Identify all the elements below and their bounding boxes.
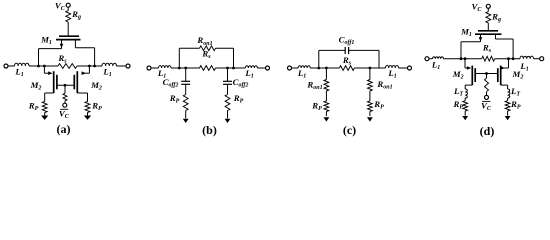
wire: LT to Rp (d right) bbox=[507, 98, 509, 101]
resistor gate bias (d) bbox=[485, 78, 489, 92]
wire: (c) output lead bbox=[399, 67, 408, 69]
inductor L1 (c left) bbox=[298, 66, 310, 68]
capacitor Coff1 (c) bbox=[345, 47, 348, 54]
label Rp (c left) bbox=[311, 101, 322, 113]
label L1 (c left) bbox=[297, 68, 306, 80]
label M1 (d) bbox=[460, 27, 472, 39]
wire: (d) main line left bbox=[444, 58, 482, 60]
resistor Rp (d left) bbox=[463, 101, 468, 111]
port: Vc terminal (d) bbox=[486, 4, 490, 8]
label Ron1 (c left) bbox=[306, 80, 322, 92]
label Ron1 (c right) bbox=[376, 79, 392, 91]
port: (c) output terminal bbox=[408, 66, 412, 70]
label M2 (a right) bbox=[90, 80, 102, 92]
label L1 (d left) bbox=[431, 59, 440, 71]
transistor M1 (d) bbox=[461, 31, 513, 59]
wire: gate to resistor (a) bbox=[64, 85, 66, 93]
label L1 (a right) bbox=[102, 67, 111, 79]
wire: Rp to ground (c right) bbox=[369, 112, 371, 117]
label Rp (d left) bbox=[452, 99, 463, 111]
label Rp (d right) bbox=[510, 99, 521, 111]
label M2 (d right) bbox=[512, 69, 524, 81]
resistor Rp (a left) bbox=[42, 102, 47, 113]
svg-text:(d): (d) bbox=[480, 124, 495, 138]
resistor Rp (c right) bbox=[368, 101, 373, 112]
label M1 (a) bbox=[40, 35, 52, 47]
wire: (c) input lead bbox=[292, 67, 299, 69]
wire: M2 gate line (d) bbox=[475, 73, 498, 75]
transistor M2 (a right) bbox=[74, 66, 89, 102]
inductor L1 (b left) bbox=[159, 66, 172, 68]
label L1 (b right) bbox=[244, 68, 253, 80]
node A1 (d) bbox=[460, 57, 463, 60]
node loop-left (c) bbox=[317, 67, 320, 70]
capacitor Coff2 (b left) bbox=[181, 81, 190, 84]
wire: (d) main line right bbox=[495, 58, 520, 60]
wire: (a) main line right bbox=[77, 65, 102, 67]
port: (b) input terminal bbox=[147, 66, 151, 70]
transistor M2 (a left) bbox=[44, 66, 57, 102]
wire: gate to resistor (d) bbox=[486, 74, 488, 79]
node B1 (a) bbox=[93, 65, 96, 68]
transistor M2 (d left) bbox=[465, 59, 475, 89]
ground (b right) bbox=[225, 119, 231, 123]
node gate junction (d) bbox=[485, 72, 488, 75]
svg-text:(a): (a) bbox=[57, 122, 71, 136]
resistor Rp (c left) bbox=[324, 101, 329, 112]
node B2 (d) bbox=[507, 57, 510, 60]
label Coff2 (b left) bbox=[163, 77, 179, 89]
label Rs (b) bbox=[201, 49, 211, 61]
label Rs (c) bbox=[342, 55, 352, 67]
resistor Ron1 (c right) bbox=[368, 80, 373, 92]
label Rp (c right) bbox=[373, 99, 384, 111]
label L1 (a left) bbox=[14, 67, 23, 79]
wire: (b) input lead bbox=[151, 67, 159, 69]
resistor Rs (b) bbox=[200, 66, 216, 71]
inductor L1 (a right) bbox=[102, 63, 117, 66]
wire: (c) left node wire bbox=[310, 67, 339, 69]
port: (d) input terminal bbox=[425, 57, 429, 61]
transistor M1 (a) bbox=[39, 36, 95, 66]
port: Vcbar terminal (a) bbox=[63, 103, 67, 107]
port: Vcbar terminal (d) bbox=[485, 95, 489, 99]
wire: Ron to Rp (c right) bbox=[369, 91, 371, 101]
ground (b left) bbox=[183, 119, 189, 123]
wire: (b) left node wire bbox=[171, 67, 200, 69]
label Rs (d) bbox=[482, 43, 492, 55]
resistor Rs (a) bbox=[58, 64, 77, 69]
wire: Rg to M1 gate (d) bbox=[487, 23, 489, 30]
wire: Rp to ground (d left) bbox=[464, 111, 466, 116]
resistor Rp (b right) bbox=[225, 95, 230, 111]
node A2 (a) bbox=[43, 65, 46, 68]
label Vcbar (d) bbox=[481, 100, 492, 112]
wire: node to Ron (c left) bbox=[325, 68, 327, 80]
wire: Rp to ground (b left) bbox=[185, 111, 187, 119]
svg-text:(c): (c) bbox=[343, 123, 356, 137]
inductor L1 (a left) bbox=[15, 63, 30, 66]
wire: Ron to Rp (c left) bbox=[325, 91, 327, 101]
inductor LT (d right) bbox=[508, 89, 510, 98]
capacitor Coff2 (b right) bbox=[223, 81, 232, 84]
wire: Rp to ground (b right) bbox=[227, 111, 229, 119]
wire: (d) output lead bbox=[534, 58, 540, 60]
label Rp (a right) bbox=[91, 101, 102, 113]
ground (d left) bbox=[462, 116, 468, 120]
wire: Rp to ground (a right) bbox=[87, 113, 89, 116]
label Ron1 (b) bbox=[196, 35, 212, 47]
wire: Coff2 to Rp (b left) bbox=[185, 84, 187, 94]
label L1 (c right) bbox=[387, 68, 396, 80]
label LT (d right) bbox=[510, 86, 520, 98]
wire: bypass loop left (c) bbox=[319, 50, 345, 68]
wire: bypass loop right (b) bbox=[216, 48, 234, 68]
node A2 (d) bbox=[464, 57, 467, 60]
label Rg (a) bbox=[71, 9, 81, 21]
resistor Rp (a right) bbox=[85, 102, 90, 113]
label M2 (d left) bbox=[452, 69, 464, 81]
wire: Rp to ground (d right) bbox=[507, 111, 509, 116]
wire: (a) main line left bbox=[29, 65, 58, 67]
resistor Ron1 (b) bbox=[200, 46, 216, 51]
caption (b) bbox=[202, 123, 217, 137]
label Vc (a) bbox=[55, 0, 66, 12]
wire: M2 gate line (a) bbox=[57, 84, 74, 86]
wire: node to Coff2 (b left) bbox=[185, 68, 187, 81]
wire: node to Ron (c right) bbox=[369, 68, 371, 80]
wire: Rp to ground (c left) bbox=[325, 112, 327, 117]
node shunt-right (b) bbox=[226, 67, 229, 70]
ground (a left) bbox=[41, 116, 48, 120]
label Coff1 (c) bbox=[339, 35, 355, 47]
node A1 (a) bbox=[37, 65, 40, 68]
ground (d right) bbox=[505, 116, 511, 120]
port: (a) input terminal bbox=[4, 64, 8, 68]
wire: bypass loop right (c) bbox=[349, 50, 379, 68]
ground (a right) bbox=[84, 116, 91, 120]
label L1 (b left) bbox=[157, 68, 166, 80]
node loop-right (b) bbox=[232, 67, 235, 70]
resistor Rs (c) bbox=[339, 66, 354, 71]
label Vcbar (a) bbox=[59, 108, 70, 120]
resistor gate bias (a) bbox=[63, 93, 67, 100]
port: (b) output terminal bbox=[266, 66, 270, 70]
label Rp (b left) bbox=[169, 93, 180, 105]
inductor L1 (d right) bbox=[520, 56, 534, 59]
inductor LT (d left) bbox=[465, 89, 467, 98]
label L1 (d right) bbox=[519, 61, 528, 73]
wire: (b) output lead bbox=[257, 67, 265, 69]
wire: (c) right node wire bbox=[354, 67, 385, 69]
wire: node to Coff2 (b right) bbox=[227, 68, 229, 81]
wire: resistor to Vcbar terminal (a) bbox=[64, 101, 66, 103]
resistor Rg (d) bbox=[486, 12, 491, 24]
svg-text:(b): (b) bbox=[202, 123, 217, 137]
wire: (a) input lead bbox=[8, 65, 15, 67]
inductor L1 (d left) bbox=[433, 57, 444, 59]
label LT (d left) bbox=[453, 86, 463, 98]
node B1 (d) bbox=[512, 57, 515, 60]
label M2 (a left) bbox=[30, 80, 42, 92]
wire: (a) output lead bbox=[117, 65, 127, 67]
node B2 (a) bbox=[88, 65, 91, 68]
wire: (d) input lead bbox=[429, 58, 433, 60]
port: (a) output terminal bbox=[126, 64, 130, 68]
port: Vc terminal (a) bbox=[66, 3, 70, 7]
label Coff2 (b right) bbox=[233, 77, 249, 89]
label Rg (d) bbox=[491, 12, 501, 24]
resistor Ron1 (c left) bbox=[324, 80, 329, 92]
wire: Vc to Rg (d) bbox=[487, 8, 489, 11]
label Rs (a) bbox=[57, 53, 67, 65]
inductor L1 (b right) bbox=[245, 66, 257, 68]
port: (d) output terminal bbox=[540, 57, 544, 61]
wire: LT to Rp (d left) bbox=[464, 98, 466, 101]
resistor Rs (d) bbox=[482, 56, 495, 61]
ground (c left) bbox=[324, 117, 330, 121]
node loop-left (b) bbox=[178, 67, 181, 70]
wire: bypass loop left (b) bbox=[179, 48, 199, 68]
wire: Vc to Rg (a) bbox=[67, 7, 69, 10]
ground (c right) bbox=[367, 117, 373, 121]
wire: resistor to Vcbar terminal (d) bbox=[486, 92, 488, 96]
port: (c) input terminal bbox=[288, 66, 292, 70]
wire: Rp to ground (a left) bbox=[44, 113, 46, 116]
caption (a) bbox=[57, 122, 71, 136]
resistor Rg (a) bbox=[66, 11, 71, 23]
node shunt-left (b) bbox=[184, 67, 187, 70]
label Vc (d) bbox=[472, 2, 483, 14]
resistor Rp (d right) bbox=[505, 101, 510, 111]
wire: Rg to M1 gate (a) bbox=[67, 22, 69, 35]
label Rp (a left) bbox=[28, 101, 39, 113]
node shunt-left (c) bbox=[325, 67, 328, 70]
inductor L1 (c right) bbox=[386, 66, 399, 68]
transistor M2 (d right) bbox=[498, 59, 509, 89]
label Rp (b right) bbox=[233, 93, 244, 105]
wire: Coff2 to Rp (b right) bbox=[227, 84, 229, 94]
wire: (b) right node wire bbox=[216, 67, 246, 69]
caption (d) bbox=[480, 124, 495, 138]
node shunt-right (c) bbox=[369, 67, 372, 70]
node gate junction (a) bbox=[64, 84, 67, 87]
caption (c) bbox=[343, 123, 356, 137]
resistor Rp (b left) bbox=[183, 95, 188, 111]
